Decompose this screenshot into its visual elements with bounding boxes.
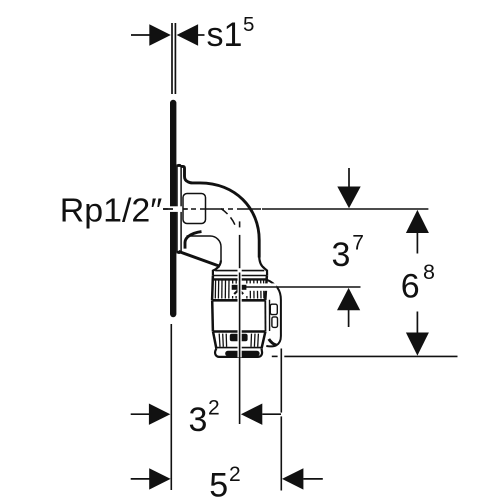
svg-text:Rp1/2″: Rp1/2″ (60, 193, 163, 230)
svg-text:3: 3 (189, 401, 208, 439)
svg-text:s1: s1 (207, 16, 243, 54)
svg-text:3: 3 (332, 236, 351, 274)
svg-text:6: 6 (401, 268, 420, 306)
svg-text:5: 5 (209, 467, 228, 500)
svg-text:2: 2 (208, 397, 220, 420)
svg-text:7: 7 (352, 231, 364, 254)
svg-text:8: 8 (423, 260, 435, 284)
svg-text:5: 5 (243, 13, 254, 36)
svg-text:2: 2 (229, 463, 241, 486)
